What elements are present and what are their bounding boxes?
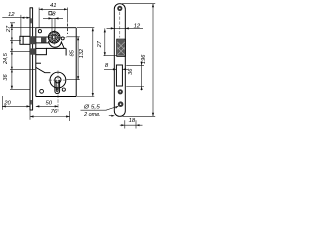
svg-text:36: 36 — [128, 68, 134, 75]
svg-text:36: 36 — [3, 74, 9, 81]
svg-text:50: 50 — [46, 100, 53, 106]
svg-text:2 отв.: 2 отв. — [83, 112, 100, 118]
svg-text:196: 196 — [141, 54, 147, 64]
svg-text:41: 41 — [50, 3, 57, 9]
svg-text:18: 18 — [129, 118, 136, 124]
svg-text:132: 132 — [79, 48, 85, 58]
svg-text:27: 27 — [97, 40, 103, 48]
svg-text:24,5: 24,5 — [3, 52, 9, 65]
svg-text:27: 27 — [6, 25, 12, 33]
svg-text:85: 85 — [69, 49, 75, 56]
svg-text:20: 20 — [3, 101, 11, 107]
svg-text:12: 12 — [8, 12, 15, 18]
svg-text:Ø 5,5: Ø 5,5 — [83, 105, 101, 111]
svg-text:76: 76 — [51, 109, 58, 115]
svg-text:12: 12 — [134, 24, 141, 30]
